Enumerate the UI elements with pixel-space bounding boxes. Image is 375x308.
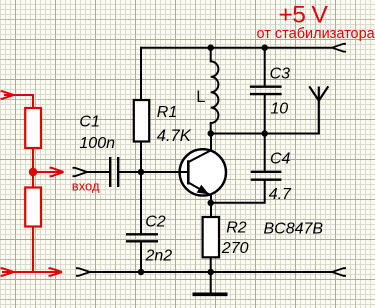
label C1: [79, 113, 99, 130]
wire: C3 top lead: [264, 47, 266, 86]
red wire: corner down to red resistor 1: [32, 94, 34, 108]
label 10: [270, 100, 288, 117]
svg-text:+5 V: +5 V: [279, 2, 329, 29]
svg-text:2n2: 2n2: [145, 247, 173, 264]
red wire: between divider resistors: [32, 148, 34, 188]
wire: ground bottom rail: [90, 271, 332, 273]
svg-text:вход: вход: [72, 179, 100, 194]
node: rail / L junction: [208, 45, 214, 51]
svg-text:4.7: 4.7: [269, 186, 292, 203]
label: от стабилизатора: [257, 26, 375, 42]
svg-text:C4: C4: [270, 150, 291, 167]
svg-text:R2: R2: [226, 219, 247, 236]
svg-text:R1: R1: [157, 104, 177, 121]
svg-text:от стабилизатора: от стабилизатора: [257, 26, 375, 42]
inductor L: [211, 48, 219, 134]
antenna W1: [309, 86, 328, 134]
+5V label: [279, 2, 329, 29]
label вход: [72, 179, 100, 194]
red resistor (lower, divider): [25, 188, 41, 227]
off-page arrow right end of +5V rail: [332, 44, 346, 52]
svg-text:C3: C3: [270, 65, 291, 82]
node: C2 / ground rail junction: [138, 269, 144, 275]
wire: +5V top rail: [141, 47, 332, 49]
node: L / collector junction: [208, 130, 214, 136]
node: R2 / ground rail junction: [208, 269, 214, 275]
capacitor C2: [126, 234, 158, 241]
red wire: bottom run with arrows: [1, 268, 63, 275]
wire: C2 bottom to ground rail: [140, 241, 142, 272]
transistor Q1 emitter lead: [189, 183, 211, 217]
wire: base node down to C2: [140, 172, 142, 234]
svg-text:10: 10: [270, 100, 288, 117]
label 100n: [79, 135, 115, 152]
red wire: lower resistor to bottom: [32, 227, 34, 273]
wire: R2 bottom to ground rail: [210, 257, 212, 272]
wire: ground stub: [210, 272, 212, 293]
node: emitter / C4 / R2 junction: [208, 200, 214, 206]
label R2: [226, 219, 247, 236]
wire: C3 bottom lead: [264, 94, 266, 133]
label C4: [270, 150, 291, 167]
wire: C1 to base node to transistor base: [118, 171, 187, 173]
red arrow: divider tap output: [33, 168, 64, 176]
svg-text:L: L: [196, 88, 205, 106]
label 2n2: [145, 247, 173, 264]
label C2: [145, 213, 166, 230]
wire: collector row (L / C3 / antenna): [211, 133, 319, 135]
label C3: [270, 65, 291, 82]
wire: C4 bottom lead to emitter node: [211, 180, 265, 203]
capacitor C4: [251, 172, 282, 180]
label L: [196, 88, 205, 106]
capacitor C1: [110, 157, 118, 187]
resistor R1: [134, 100, 149, 142]
transistor Q1 emitter arrow: [197, 185, 209, 195]
wire: input to C1: [87, 171, 109, 173]
label BC847B: [264, 221, 324, 238]
transistor Q1 base bar: [187, 160, 190, 184]
input arrow (вход): [73, 168, 88, 176]
svg-text:270: 270: [221, 240, 249, 257]
node: rail / C3 junction: [262, 45, 268, 51]
red node: divider tap: [29, 168, 37, 176]
label 4.7K: [157, 127, 192, 145]
red divider: top input arrow: [1, 91, 34, 98]
svg-text:100n: 100n: [79, 135, 115, 152]
svg-text:4.7K: 4.7K: [157, 127, 192, 145]
wire: R1 bottom to base node: [140, 142, 142, 173]
svg-text:BC847B: BC847B: [264, 221, 324, 238]
wire: rail corner down to R1: [140, 47, 142, 100]
resistor R2: [203, 217, 219, 257]
label 270: [221, 240, 249, 257]
ground symbol: [193, 292, 228, 296]
wire: C4 top lead: [264, 134, 266, 172]
node: C1 / R1 / C2 / base junction: [138, 169, 144, 175]
red resistor (upper, divider): [25, 108, 41, 148]
label 4.7: [269, 186, 292, 203]
capacitor C3: [250, 87, 282, 94]
svg-text:C2: C2: [145, 213, 166, 230]
off-page arrow left end of ground rail: [76, 268, 90, 276]
svg-text:C1: C1: [79, 113, 99, 130]
node: C3 / C4 junction: [262, 130, 268, 136]
transistor Q1 circle: [180, 149, 226, 195]
label R1: [157, 104, 177, 121]
off-page arrow right end of ground rail: [332, 268, 346, 276]
transistor Q1 collector lead: [189, 134, 211, 162]
